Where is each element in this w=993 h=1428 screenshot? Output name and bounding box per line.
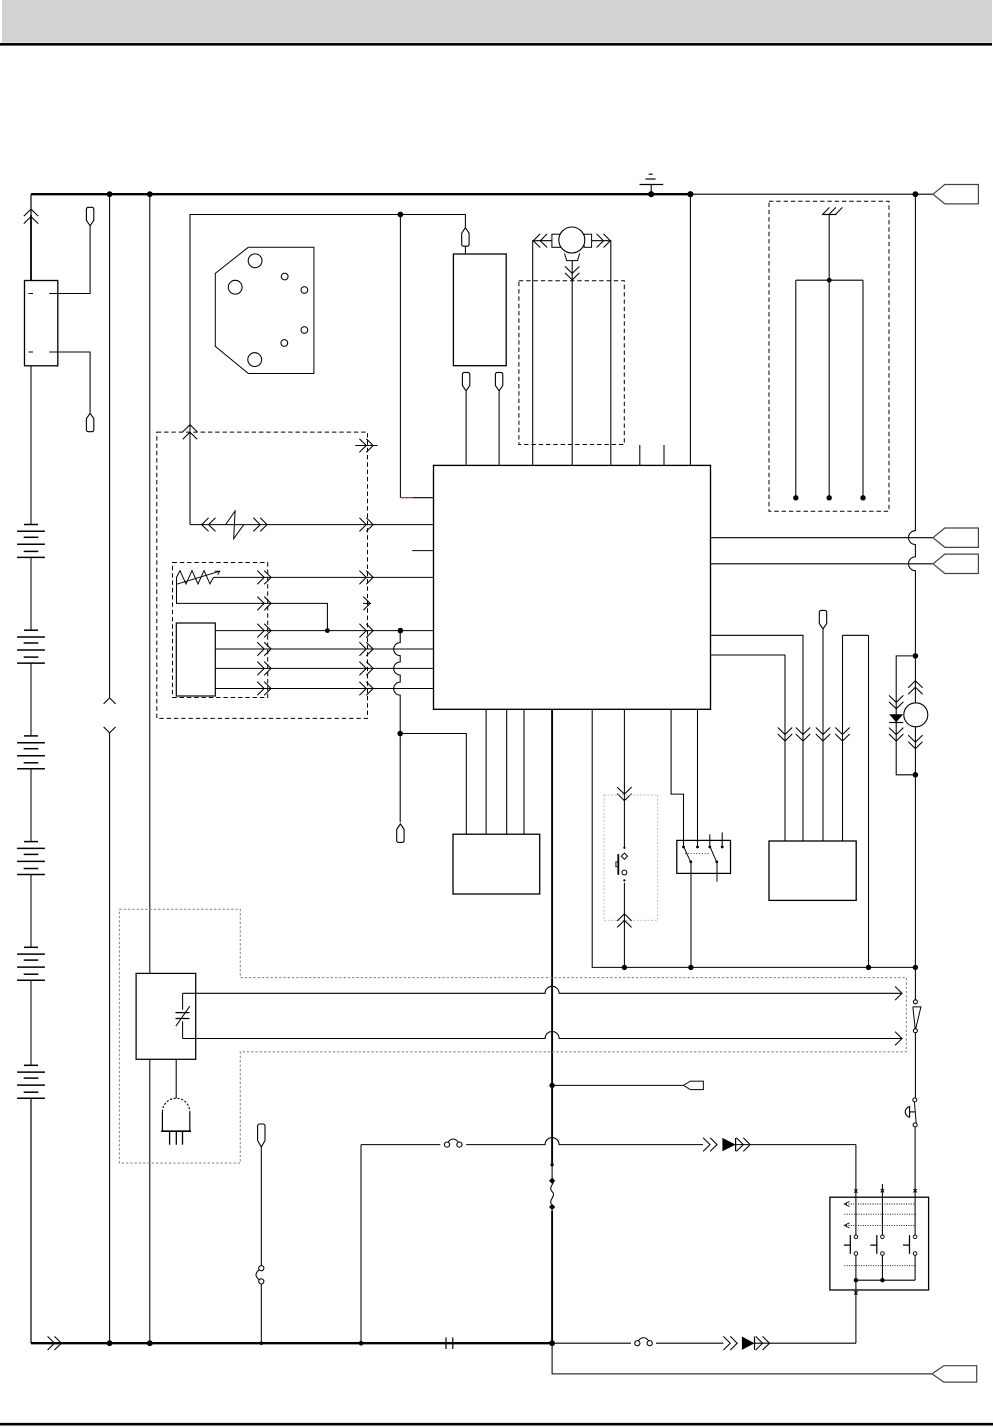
combo switch contact upper [913, 1235, 917, 1239]
wire link to pull switch [914, 1033, 916, 1098]
wire ignition feed with breaker to U1 [190, 524, 434, 526]
node junction motor branch bottom [913, 772, 919, 778]
driver module box B2 [453, 834, 540, 894]
combo switch actuator bar [909, 1235, 911, 1254]
terminal lug T-D [462, 372, 469, 391]
wire left vertical V1 lower [109, 733, 111, 1343]
node combo common 1 [854, 1278, 858, 1282]
node junction bus right flag tap [913, 191, 919, 197]
relay R1 contact dot b [708, 846, 711, 849]
node junction sensor bar [827, 278, 832, 283]
wire U1 pin to driver 1 [485, 709, 487, 834]
contact dot upper [623, 847, 625, 849]
combo common bar [856, 1279, 915, 1281]
flasher capacitor left leg [182, 993, 184, 1010]
arrow chevrons SW1 wire harness edge [359, 682, 366, 696]
wire bundle junction to driver box [400, 734, 466, 835]
combo switch contact upper [881, 1235, 885, 1239]
arrow marker on harness right edge [355, 445, 377, 447]
terminal lug T-G [397, 824, 404, 843]
node sensor lead end mid [827, 495, 832, 500]
wire sensor top bar [796, 279, 863, 281]
wire bottom to combo output corner [755, 1342, 856, 1344]
wire centre feed to small flag [552, 1084, 683, 1086]
wire sensor lead right [862, 280, 864, 498]
crossing mark wire2 top [881, 1189, 884, 1192]
arrow chevrons down diode branch upper [889, 695, 903, 702]
node sensor lead end right [860, 495, 865, 500]
arrow chevrons up into harness top [183, 425, 197, 432]
wire bottom bus thin with fuse and diode [552, 1342, 631, 1344]
heater element diamond top [549, 1178, 555, 1184]
off-page connector flag top right [933, 185, 978, 204]
combo switch column wire lower [914, 1256, 916, 1281]
wire bracket right leg to accessory bus [868, 635, 870, 967]
harness grey dashed notched outline [119, 909, 906, 1163]
wire horn feed with fuse diode [361, 1144, 440, 1146]
motor M1 brush left [552, 234, 560, 247]
contact dot lower [623, 879, 625, 881]
wire U1 to relay R1 straight [697, 709, 699, 846]
mains plug dome dashed [162, 1098, 189, 1112]
wire between batteries 2-3 [30, 663, 32, 736]
combo dotted line 3 with arrow [846, 1224, 915, 1226]
wire FB1 pin b to terminal [51, 225, 90, 294]
node sensor lead end left [793, 495, 798, 500]
combo switch actuator tick [870, 1244, 877, 1246]
wire into control unit pin1 [413, 497, 434, 499]
combination switch box B4 [830, 1197, 929, 1290]
battery cell group 4 [24, 841, 38, 843]
wire flasher to mains plug [175, 1059, 177, 1098]
relay R1 box [677, 840, 731, 873]
rheostat resistor zigzag [177, 571, 214, 584]
motor M1 brush right [584, 234, 592, 247]
arrow marker wiper harness edge [363, 602, 371, 604]
wire between batteries 4-5 [30, 875, 32, 948]
combo switch actuator tick [903, 1244, 910, 1246]
footer rule [0, 1423, 993, 1426]
connector C1 cavity small 4 [281, 340, 288, 347]
push-button actuator bar [617, 854, 619, 875]
wire horn feed mid [466, 1138, 703, 1145]
terminal lug T-E [495, 372, 502, 391]
arrow chevrons down lamp wire 4 [835, 728, 849, 735]
wire motor branch to accessory bus [914, 775, 916, 968]
node junction bus ground tap [648, 191, 654, 197]
wire lamp bracket bar [843, 634, 869, 636]
wire flasher output 1 long [183, 986, 902, 993]
diode D2 horn [722, 1138, 735, 1151]
arrow chevrons motor left [533, 234, 540, 248]
arrow chevrons down motor M2 [908, 735, 922, 742]
combo switch actuator bar [876, 1235, 878, 1254]
arrow flasher output 2 [895, 1032, 902, 1046]
battery cell group 2 [24, 629, 38, 631]
battery cell group 6 [24, 1064, 38, 1066]
relay R0 tall box [453, 254, 506, 366]
pull switch contact bottom [913, 1123, 917, 1127]
node junction wiper-pin1 [325, 628, 330, 633]
wire terminal C to relay R0 [464, 246, 466, 254]
pin tick FB1 c [29, 351, 34, 353]
dashed connector box harness left [157, 432, 368, 718]
diode D3 bottom [742, 1337, 755, 1350]
node bottom bus V1 [107, 1340, 113, 1346]
motor M1 lower cup [565, 253, 580, 260]
connector C1 cavity big 1 [248, 254, 262, 268]
pin tick FB1 a [29, 293, 34, 295]
inline fuse horn circles [444, 1142, 449, 1147]
push-button contact diamond [621, 853, 627, 859]
node bottom bus V2 [147, 1340, 153, 1346]
wire pull switch to combo box [914, 1127, 916, 1197]
dashed box push-button switch [604, 795, 658, 920]
wire bold centre feed lower [551, 1211, 553, 1344]
wire main right vertical upper with hops [909, 194, 916, 656]
combo switch contact upper [854, 1235, 858, 1239]
wire U1 out y563 to off-page flag [711, 563, 934, 565]
arrow chevrons SW1 wire inner edge [257, 682, 264, 696]
node bottom bus fuse branch [260, 1341, 264, 1345]
inline connector V1 male caret [104, 698, 116, 704]
node junction bundle bottom [397, 731, 403, 737]
terminal lug T-A [86, 207, 93, 226]
wire sensor lead mid [828, 280, 830, 498]
arrow chevrons down into switch box [617, 787, 631, 794]
wire connector feed loop [190, 215, 465, 525]
combo switch column wire upper [855, 1197, 857, 1235]
arrow chevrons wiper wire inner edge [257, 597, 264, 611]
pull switch contact top [913, 1098, 917, 1102]
wire U1 out y635 to lamp module [711, 635, 804, 841]
arrow chevrons SW1 wire inner edge [257, 662, 264, 676]
wire junction drop to control unit [399, 215, 401, 498]
fusebox FB1 left [25, 281, 58, 366]
pin tick FB1 b [49, 293, 54, 295]
wire horn feed left leg [360, 1145, 362, 1344]
push-button actuator notch [616, 862, 618, 867]
wire bus tap to control unit top [689, 194, 691, 465]
arrow chevrons SW1 wire inner edge [257, 642, 264, 656]
wire U1 to relay R1 jog [671, 709, 683, 846]
arrow chevrons horn wire [703, 1138, 710, 1152]
combo switch column wire upper [881, 1197, 883, 1235]
flasher capacitor arrow slash [176, 1006, 190, 1026]
crossing mark wire3 top [913, 1189, 916, 1192]
terminal lug T-C [462, 228, 469, 247]
wire U1 out y655 to lamp module [711, 655, 786, 841]
terminal lug T-H hanging [258, 1124, 265, 1147]
wire FB1 pin d to terminal [51, 352, 90, 413]
combo switch column wire lower [881, 1256, 883, 1281]
wire U1 pin to driver 3 [523, 709, 525, 834]
node junction accessory bus main vertical [913, 965, 918, 970]
flasher unit box F1 [136, 973, 196, 1059]
arrow chevrons SW1 wire harness edge [359, 642, 366, 656]
arrow chevrons SW1 wire inner edge [257, 624, 264, 638]
wire flasher output 2 long [183, 1032, 902, 1039]
flasher capacitor plate bottom [176, 1018, 190, 1020]
header rule [0, 43, 992, 46]
wire bold battery feed [30, 215, 32, 281]
inline fuse bottom circles [635, 1341, 640, 1346]
arrow chevrons down lamp wire 2 [796, 728, 810, 735]
wire from bus down-left [30, 194, 32, 215]
node junction accessory bus right branch [866, 965, 871, 970]
arrow chevrons rheostat wire inner edge [257, 571, 264, 585]
push-button contact circle [622, 870, 627, 875]
wire magenta segment into control unit [400, 497, 413, 499]
arrow chevrons rheostat wire harness edge [359, 571, 366, 585]
motor M1 body circle [559, 227, 585, 253]
wire fuse to bottom bus [260, 1284, 262, 1343]
node junction bus thin tap [687, 191, 693, 197]
pin stub combo middle [881, 1184, 883, 1197]
wire rheostat wiper branch [177, 577, 328, 630]
fusible link contact bottom [913, 1029, 917, 1033]
wire SW1 pin3 to U1 [215, 667, 433, 669]
inline capacitor ticks on bottom bus [445, 1337, 447, 1349]
crossing mark wire1 top [854, 1189, 857, 1192]
relay R1 blade 2 [710, 846, 717, 863]
inline connector V1 female caret [104, 727, 116, 733]
dashed box heater control panel [173, 563, 268, 698]
arrow chevrons up out of switch box [617, 914, 631, 921]
off-page small flag [684, 1081, 704, 1089]
wire sensor lead left [795, 280, 797, 498]
node bottom bus centre feed [549, 1340, 555, 1346]
combo switch actuator tick [844, 1244, 851, 1246]
diode D1 vertical [889, 714, 903, 722]
combo switch actuator bar [849, 1235, 851, 1254]
mains plug prong 3 [182, 1131, 184, 1145]
pin stub top 1 [639, 445, 641, 465]
page header grey bar [2, 0, 992, 43]
wire horn feed down to switch box [855, 1145, 857, 1198]
combo switch contact lower [881, 1252, 885, 1256]
pin stub R1 fourth [721, 832, 723, 847]
arrow chevrons bottom wire after diode [756, 1336, 763, 1350]
wire SW1 pin2 to U1 [215, 648, 433, 650]
node junction bus-left vertical 2 [147, 191, 153, 197]
wire U1 pin to driver 2 [506, 709, 508, 834]
battery cell group 5 [24, 946, 38, 948]
wire combo output down [855, 1280, 857, 1343]
off-page connector flag mid 2 [933, 554, 978, 573]
relay R1 contact dot e [689, 860, 692, 863]
wire motor M1 left lead [533, 241, 552, 466]
arrow chevrons SW1 wire harness edge [359, 624, 366, 638]
connector C1 cavity small 1 [281, 273, 288, 280]
harness dashed box motor leads [519, 281, 624, 445]
arrow chevrons bottom bus left [48, 1336, 55, 1350]
wire push-button to accessory bus [623, 883, 625, 968]
wire left vertical V2 upper [149, 194, 151, 973]
wire accessory bus to fusible link [914, 967, 916, 999]
connector C1 cavity small 3 [301, 327, 308, 334]
ground chassis symbol above bus [650, 185, 652, 195]
connector C1 face heptagon [215, 247, 314, 373]
node junction motor branch top [913, 653, 919, 659]
off-page connector flag bottom [932, 1366, 977, 1382]
connector C1 cavity small 2 [301, 287, 308, 294]
relay R1 blade 2 tail [716, 863, 718, 882]
wire left vertical V1 upper [109, 194, 111, 698]
arrow chevrons down diode branch lower [889, 728, 903, 735]
mains plug prong 1 [169, 1131, 171, 1145]
node junction on connector feed [398, 212, 404, 218]
combo dotted line 4 [844, 1265, 915, 1267]
wire after fuse [656, 1342, 723, 1344]
arrow chevrons motor down [565, 266, 579, 273]
wire U1 to push-button [623, 709, 625, 848]
fusible link contact top [913, 1000, 917, 1004]
pin stub top 2 [663, 445, 665, 465]
arrow chevrons horn wire after diode [736, 1138, 743, 1152]
node combo common 2 [880, 1278, 884, 1282]
motor M2 body circle [904, 703, 928, 727]
harness bundle hop arcs [394, 631, 400, 734]
pull switch blade [914, 1102, 916, 1123]
node junction accessory bus pushbutton [622, 965, 627, 970]
wire bottom flag run [552, 1343, 932, 1374]
connector C1 cavity big 3 [248, 353, 262, 367]
flasher capacitor plate top [176, 1012, 190, 1014]
wire T-E to control unit [498, 391, 500, 465]
control unit U1 main box [434, 465, 711, 709]
off-page connector flag mid 1 [933, 528, 978, 547]
combo switch column wire upper [914, 1197, 916, 1235]
wire FB1 to battery chain [30, 366, 32, 525]
node junction bundle top [398, 628, 404, 634]
wire terminal to lamp module [822, 629, 824, 841]
connector C1 cavity big 2 [228, 280, 242, 294]
pin tick FB1 d [49, 351, 54, 353]
wire bundle junction to terminal [399, 734, 401, 823]
arrow chevrons down lamp wire 1 [778, 728, 792, 735]
node junction centre feed flag tap [549, 1083, 554, 1088]
arrow chevrons left on breaker wire [202, 518, 209, 532]
wire between batteries 3-4 [30, 769, 32, 842]
terminal lug T-F [819, 610, 826, 629]
wire battery chain to bottom bus [30, 1098, 32, 1343]
node heater element top [550, 1163, 553, 1166]
wire top supply bus bold segment [31, 193, 690, 195]
mains plug prong 2 [175, 1131, 177, 1145]
wire motor M1 down lead [571, 261, 573, 466]
arrow flasher output 1 [895, 987, 902, 1001]
relay R1 contact dot f [715, 860, 718, 863]
arrow chevrons breaker wire harness edge [359, 518, 366, 532]
wire motor M2 branch [914, 656, 916, 775]
wire between batteries 5-6 [30, 980, 32, 1065]
wire bracket left leg to lamp module [842, 635, 844, 841]
battery cell group 3 [24, 735, 38, 737]
wire between batteries 1-2 [30, 557, 32, 630]
arrow chevrons SW1 wire harness edge [359, 662, 366, 676]
relay R1 contact dot d [721, 846, 724, 849]
ground hatched symbol in sensor box [822, 214, 837, 216]
pin stub U1 left y550 [412, 550, 433, 552]
crossing mark combo output [854, 1291, 857, 1294]
shield dashed box sensor [769, 201, 889, 511]
wire U1 to accessory bus [592, 709, 915, 967]
wire bold centre feed upper [551, 709, 553, 1165]
wire T-D to control unit [465, 391, 467, 465]
wire terminal to fuse [260, 1147, 262, 1265]
arrow chevrons down lamp wire 3 [816, 728, 830, 735]
wire motor M1 right lead [592, 241, 611, 466]
battery cell group 1 [24, 524, 38, 526]
circuit breaker zigzag [226, 511, 244, 539]
pin stub R1 third [709, 834, 711, 847]
pull switch knob dome [905, 1107, 909, 1118]
combo dotted line 1 with arrow [846, 1203, 915, 1205]
wire diode branch [896, 656, 915, 775]
terminal lug T-B [86, 413, 93, 432]
relay R1 contact dot a [682, 846, 685, 849]
wire SW1 pin1 to U1 [215, 630, 433, 632]
relay R1 blade 1 [684, 846, 692, 863]
fusible link body [913, 1007, 921, 1029]
wire rheostat out to U1 [214, 576, 434, 578]
pull switch knob stem [910, 1111, 915, 1113]
heater element coil [551, 1165, 554, 1211]
node bottom bus horn branch [359, 1341, 364, 1346]
arrow chevrons right on breaker wire [253, 518, 260, 532]
rheostat adjust arrow [177, 571, 220, 584]
wire U1 out y537 to off-page flag [711, 537, 934, 539]
wire sensor ground stem [828, 215, 830, 281]
wire relay R1 output to accessory bus [690, 863, 692, 968]
combo switch contact lower [913, 1252, 917, 1256]
wire top supply bus thin segment [690, 193, 933, 195]
flasher capacitor right leg [182, 1021, 184, 1038]
wire horn feed right [736, 1144, 856, 1146]
node junction accessory bus relay [688, 965, 693, 970]
node junction bus-left vertical 1 [107, 191, 113, 197]
combo dotted line 2 [844, 1213, 915, 1215]
arrow chevrons motor right [604, 234, 611, 248]
relay R1 linkage dotted [685, 853, 709, 855]
inline fuse vertical circles [259, 1266, 264, 1271]
lamp module box B3 [769, 841, 856, 900]
arrow chevrons bottom wire [723, 1336, 730, 1350]
combo switch contact lower [854, 1252, 858, 1256]
heater element diamond bottom [549, 1204, 555, 1210]
relay R1 contact dot c [696, 846, 699, 849]
wire SW1 pin4 to U1 [215, 688, 433, 690]
mains plug body [161, 1112, 163, 1131]
connector arrow chevrons up on battery feed [24, 209, 38, 216]
combo switch column wire lower [855, 1256, 857, 1281]
blower switch SW1 box [176, 623, 215, 696]
arrow chevrons up motor M2 [908, 681, 922, 688]
wire bottom return bus bold [31, 1342, 552, 1344]
wire left vertical V2 lower [149, 1059, 151, 1343]
